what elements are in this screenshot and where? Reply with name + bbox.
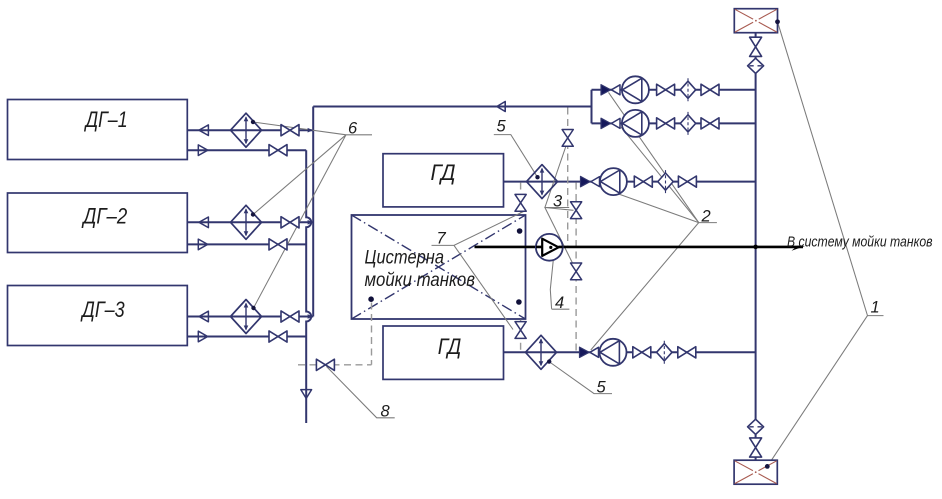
svg-text:мойки танков: мойки танков: [365, 270, 476, 291]
svg-text:ДГ–2: ДГ–2: [81, 203, 128, 228]
svg-text:4: 4: [555, 294, 564, 312]
svg-text:ДГ–1: ДГ–1: [83, 107, 127, 132]
svg-text:5: 5: [497, 118, 507, 136]
svg-text:В систему мойки танков: В систему мойки танков: [787, 234, 933, 250]
svg-text:Цистерна: Цистерна: [365, 248, 445, 269]
svg-text:7: 7: [437, 230, 447, 248]
svg-text:1: 1: [871, 299, 880, 317]
svg-text:ГД: ГД: [438, 334, 462, 359]
svg-text:ДГ–3: ДГ–3: [80, 297, 126, 322]
svg-text:ГД: ГД: [431, 160, 456, 185]
svg-text:5: 5: [597, 379, 607, 397]
svg-text:2: 2: [701, 208, 711, 226]
svg-text:3: 3: [553, 193, 563, 211]
svg-text:8: 8: [381, 403, 391, 421]
svg-text:6: 6: [348, 120, 358, 138]
